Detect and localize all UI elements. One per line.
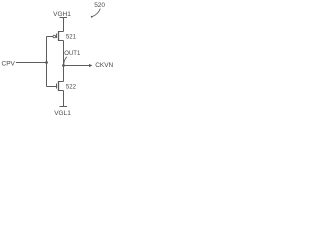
VGL1 rail bar [60, 106, 68, 108]
transistor 521 channel bar [58, 31, 60, 41]
transistor 521 gate bar [56, 34, 58, 39]
wire VGH1 to Q521 drain [63, 18, 65, 32]
wire gate lead 521 [47, 36, 54, 38]
wire 521 source to output node [63, 41, 65, 66]
transistor 522 source stub [59, 90, 64, 92]
VGH1 rail bar [60, 17, 68, 19]
transistor 522 drain stub [59, 81, 64, 83]
node CPV junction dot [45, 61, 48, 64]
svg-text:520: 520 [94, 2, 105, 9]
svg-text:VGL1: VGL1 [54, 110, 71, 117]
svg-text:522: 522 [66, 85, 77, 91]
svg-text:CKVN: CKVN [95, 62, 113, 69]
svg-text:CPV: CPV [2, 60, 16, 67]
transistor 521 drain stub [59, 31, 64, 33]
transistor 522 gate bar [56, 84, 58, 89]
wire output node to 522 drain [63, 66, 65, 82]
transistor 521 source stub [59, 40, 64, 42]
wire gate bus [46, 37, 48, 87]
leader 520 [92, 9, 100, 17]
leader 520 end dot [91, 16, 93, 18]
transistor 522 channel bar [58, 81, 60, 91]
svg-text:VGH1: VGH1 [53, 11, 71, 18]
transistor 521 PMOS bubble [53, 35, 56, 38]
wire CPV input [16, 62, 47, 64]
wire gate lead 522 [47, 86, 57, 88]
node OUT1 junction dot [62, 64, 65, 67]
leader OUT1 to node [64, 57, 67, 64]
svg-text:521: 521 [66, 34, 77, 40]
wire 522 source to VGL1 [63, 91, 65, 107]
svg-text:OUT1: OUT1 [64, 51, 81, 57]
wire output line [64, 65, 90, 67]
arrowhead to CKVN [89, 64, 92, 67]
